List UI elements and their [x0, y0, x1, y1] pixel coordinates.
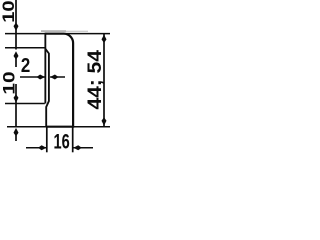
arrowhead down, height 44;54: [102, 117, 107, 125]
extension line, bottom-right for 16: [72, 127, 74, 152]
dimension line, lower 10: [15, 84, 17, 127]
arrow tail, lower 10: [15, 135, 17, 141]
extension line, bottom-left for 16: [46, 127, 48, 152]
arrowhead up, height 44;54: [102, 35, 107, 43]
dimension line right, width 16: [73, 147, 93, 149]
extension line, lip shoulder: [5, 47, 45, 49]
arrowhead right, width 2: [37, 75, 45, 80]
extension line, top face: [5, 33, 110, 35]
extension line, bottom face: [7, 126, 110, 128]
arrowhead left, width 16: [73, 145, 81, 150]
arrowhead left, width 2: [50, 75, 58, 80]
arrowhead up, lower 10: [14, 128, 19, 136]
arrowhead up, upper 10: [14, 51, 19, 59]
faint artifact line above top edge: [41, 30, 88, 32]
arrowhead down, lower 10: [14, 94, 19, 102]
svg-text:44; 54: 44; 54: [85, 50, 106, 110]
profile inner contour: lower-left wall, slot diagonal, inner lip wall, top diagonal: [45, 49, 49, 127]
dimension line left, width 2: [20, 76, 45, 78]
dimension line left, width 16: [26, 147, 47, 149]
profile outline: top edge, rounded top-right corner, right edge, bottom edge: [45, 34, 73, 127]
arrow tail, upper 10: [15, 58, 17, 67]
svg-text:10: 10: [0, 71, 18, 94]
svg-text:16: 16: [54, 131, 70, 154]
extension line, lip tip: [5, 103, 45, 105]
dimension line, upper 10: [15, 0, 17, 50]
arrowhead down, upper 10: [14, 23, 19, 31]
dimension line right, width 2: [50, 76, 65, 78]
dimension line, height 44;54: [103, 34, 105, 126]
svg-text:10: 10: [0, 0, 18, 22]
arrowhead right, width 16: [38, 145, 46, 150]
profile outer lip wall: [44, 33, 46, 104]
svg-text:2: 2: [21, 54, 30, 77]
